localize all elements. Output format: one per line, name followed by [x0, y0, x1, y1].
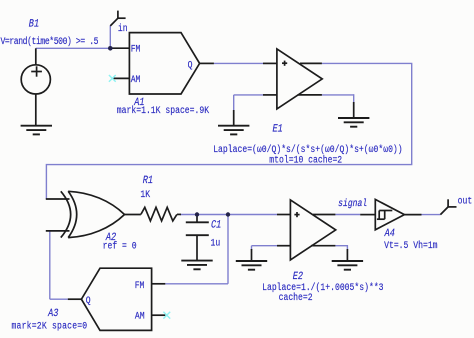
svg-text:E1: E1 [271, 123, 283, 135]
svg-text:mtol=10 cache=2: mtol=10 cache=2 [269, 154, 342, 166]
svg-text:B1: B1 [28, 18, 40, 30]
svg-text:FM: FM [131, 43, 141, 55]
svg-text:AM: AM [131, 73, 141, 85]
svg-text:mark=1.1K space=.9K: mark=1.1K space=.9K [117, 104, 210, 116]
svg-text:FM: FM [135, 279, 145, 291]
svg-text:out: out [458, 194, 473, 206]
svg-text:1K: 1K [140, 188, 150, 200]
svg-text:1u: 1u [211, 237, 221, 249]
svg-text:AM: AM [135, 309, 145, 321]
svg-text:R1: R1 [142, 174, 154, 186]
svg-text:signal: signal [337, 197, 368, 209]
svg-text:C1: C1 [210, 219, 222, 231]
svg-text:V=rand(time*500) >= .5: V=rand(time*500) >= .5 [1, 35, 99, 47]
svg-text:mark=2K space=0: mark=2K space=0 [12, 319, 88, 331]
svg-text:A3: A3 [47, 307, 59, 319]
svg-text:in: in [118, 22, 128, 34]
svg-text:Vt=.5 Vh=1m: Vt=.5 Vh=1m [384, 239, 438, 251]
svg-text:A4: A4 [384, 227, 396, 239]
svg-text:Q: Q [86, 294, 91, 306]
svg-text:cache=2: cache=2 [279, 291, 313, 303]
svg-text:Q: Q [188, 58, 193, 70]
svg-text:ref = 0: ref = 0 [103, 240, 137, 252]
